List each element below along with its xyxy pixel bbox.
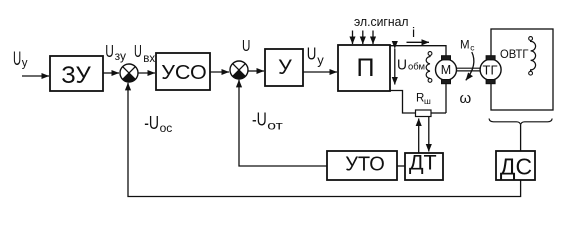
wire shunt to DT down arrow	[428, 117, 430, 152]
TG bottom brush	[486, 80, 495, 84]
motor top brush	[442, 56, 451, 60]
svg-text:УТО: УТО	[345, 153, 385, 175]
wire summer 2 to U block	[248, 70, 264, 72]
summing junction 1	[120, 64, 138, 82]
label U obm	[397, 57, 425, 74]
svg-text:-U: -U	[144, 113, 159, 133]
wire P top to motor brush	[390, 46, 446, 56]
label Uzu	[105, 41, 126, 63]
svg-text:П: П	[357, 54, 375, 82]
svg-text:зу: зу	[115, 49, 126, 63]
resistor R shunt	[416, 110, 432, 117]
summing junction 2	[230, 61, 248, 79]
svg-text:ЗУ: ЗУ	[61, 62, 91, 89]
wire current arrow i	[407, 41, 430, 43]
svg-text:ш: ш	[424, 96, 431, 106]
OVTG coil	[529, 37, 536, 76]
block P (converter)	[338, 45, 390, 91]
block ZU	[50, 56, 103, 91]
label -Uos	[144, 113, 172, 135]
motor bottom brush	[442, 80, 451, 84]
motor M	[436, 59, 457, 80]
wire input arrow into ZU	[22, 75, 49, 77]
wire USO to summer 2	[210, 71, 229, 73]
svg-text:эл.сигнал: эл.сигнал	[354, 15, 409, 29]
wire UTO to summer 2 feedback	[239, 80, 327, 166]
TG top brush	[486, 56, 495, 60]
svg-text:U: U	[134, 41, 142, 61]
svg-text:от: от	[267, 118, 283, 132]
label Uy (input)	[13, 49, 28, 70]
svg-text:ω: ω	[460, 90, 472, 107]
block USO	[156, 53, 210, 90]
wire U obm double arrow	[394, 49, 396, 85]
svg-text:ОВТГ: ОВТГ	[500, 47, 529, 61]
svg-text:ДТ: ДТ	[409, 151, 437, 175]
svg-text:U: U	[397, 57, 407, 74]
svg-text:М: М	[441, 63, 451, 77]
brace under OVTG	[489, 119, 552, 125]
label -Uot	[252, 109, 283, 132]
wire motor bottom to shunt	[445, 84, 447, 113]
shaft motor to TG	[457, 68, 481, 71]
wire P bottom to shunt	[390, 91, 416, 114]
svg-text:U: U	[13, 49, 21, 70]
tachogenerator TG	[480, 59, 501, 80]
svg-text:вх: вх	[143, 53, 155, 65]
svg-text:ос: ос	[160, 121, 173, 135]
label Mc	[460, 39, 475, 52]
load torque curved arrow Mc	[466, 52, 474, 80]
svg-text:ДС: ДС	[500, 153, 532, 179]
svg-text:У: У	[278, 55, 292, 79]
block DT (current sensor)	[405, 151, 443, 181]
svg-text:у: у	[317, 52, 324, 67]
block DS (speed sensor)	[496, 151, 535, 180]
block UTO	[327, 151, 397, 180]
block U (amplifier)	[265, 49, 303, 86]
svg-text:U: U	[242, 38, 250, 55]
svg-text:U: U	[105, 41, 114, 61]
label R sh	[416, 92, 431, 106]
winding obm coil	[426, 52, 432, 83]
svg-text:обм: обм	[408, 62, 425, 73]
wire el.signal arrow 1	[352, 31, 354, 45]
OVTG enclosure rectangle	[491, 29, 553, 110]
svg-text:i: i	[412, 24, 415, 40]
svg-text:УСО: УСО	[161, 61, 207, 84]
wire U block to P	[303, 71, 337, 73]
wire summer 1 to USO	[138, 72, 155, 74]
svg-text:М: М	[460, 39, 470, 51]
wire el.signal arrow 3	[372, 31, 374, 45]
label Uvx	[134, 41, 155, 65]
svg-text:ТГ: ТГ	[483, 62, 498, 77]
svg-text:с: с	[470, 43, 475, 53]
svg-text:-U: -U	[252, 109, 267, 129]
wire shunt to DT up arrow	[418, 119, 420, 153]
wire DS to summer 1 feedback	[128, 83, 521, 197]
label Uy (after U block)	[307, 43, 325, 67]
wire ZU to summer 1	[103, 72, 119, 74]
svg-text:у: у	[22, 58, 28, 70]
wire el.signal arrow 2	[362, 31, 364, 45]
wire shunt to motor	[431, 112, 446, 114]
wire DT to UTO	[397, 165, 405, 167]
svg-text:U: U	[307, 43, 317, 63]
wire brace to DS	[520, 125, 522, 151]
